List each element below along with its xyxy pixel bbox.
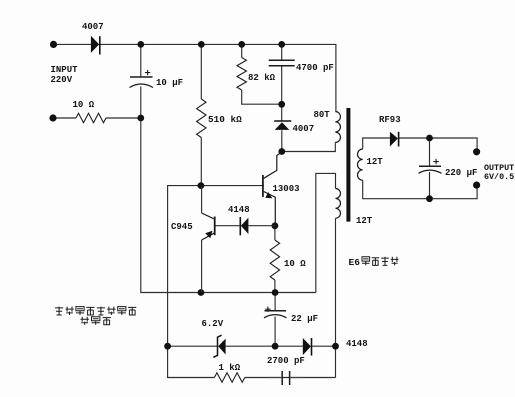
svg-text:10 Ω: 10 Ω [73, 100, 95, 110]
inductor primary 80T [335, 112, 340, 143]
wire bottom row [168, 346, 336, 377]
diode D3 4148 base [215, 217, 275, 235]
svg-text:4148: 4148 [228, 205, 250, 215]
node junction 4700pF top [278, 41, 285, 48]
svg-text:4700 pF: 4700 pF [296, 63, 334, 73]
inductor secondary 12T [358, 149, 363, 180]
transformer core [346, 108, 350, 222]
diode D5 RF93 output rectifier [390, 132, 399, 147]
node junction zener row left [164, 343, 171, 350]
node junction 10ohm 22uF [272, 289, 279, 296]
wire top rail [54, 44, 336, 111]
text E6 core caption CJK [362, 257, 398, 266]
text caption phone charger power line1 [55, 307, 136, 315]
wire secondary loop [363, 138, 477, 199]
text E6 high frequency core [349, 257, 361, 268]
svg-text:RF93: RF93 [379, 115, 401, 125]
svg-text:13003: 13003 [273, 184, 300, 194]
svg-text:82 kΩ: 82 kΩ [248, 73, 276, 83]
diode ZD 6.2V zener [213, 335, 225, 357]
wire 22uF leads [274, 293, 276, 347]
node junction 82k 4700pF 4007 [278, 101, 285, 108]
wire 220uF leads [429, 138, 431, 199]
diode D4 4148 feedback [303, 338, 312, 356]
node junction 510k top [198, 41, 205, 48]
wire 80T bottom to collector node [282, 142, 336, 151]
node junction 4148 feedback [332, 343, 339, 350]
wire feedback bottom to 4148 node [335, 218, 337, 377]
capacitor C5 220uF electrolytic [419, 159, 442, 173]
node junction collector [278, 148, 285, 155]
svg-text:2700 pF: 2700 pF [267, 356, 305, 366]
resistor R2 510k [197, 99, 206, 138]
diode D1 4007 input rectifier [91, 36, 100, 55]
node junction 4148 emitter [272, 222, 279, 229]
node output terminal minus [473, 182, 480, 189]
node junction 22uF bottom [272, 343, 279, 350]
capacitor C2 4700pF [269, 60, 295, 66]
resistor R3 82k [237, 58, 246, 91]
svg-text:22 µF: 22 µF [291, 314, 318, 324]
svg-text:E6: E6 [349, 257, 361, 268]
node junction 10uF top [137, 41, 144, 48]
svg-text:80T: 80T [314, 110, 331, 120]
capacitor C1 10uF electrolytic [130, 70, 154, 88]
svg-text:510 kΩ: 510 kΩ [208, 114, 242, 125]
transistor Q2 13003 [263, 153, 281, 226]
node junction 82k top [238, 41, 245, 48]
svg-text:220 µF: 220 µF [445, 168, 477, 178]
text caption converter line2 [81, 317, 111, 325]
wire 4007 shunt diode leads [281, 104, 283, 151]
svg-text:1 kΩ: 1 kΩ [219, 363, 241, 373]
wire base rail to 13003 [168, 186, 264, 347]
transistor Q1 C945 [202, 186, 215, 293]
svg-text:4007: 4007 [293, 124, 315, 134]
svg-text:10 µF: 10 µF [156, 78, 183, 88]
resistor R4 10 ohm emitter [270, 240, 279, 280]
wire input lower lead [53, 117, 141, 119]
wire 510k branch [200, 44, 202, 185]
svg-text:12T: 12T [356, 216, 373, 226]
wire 10uF branch down to emitter rail [141, 44, 316, 292]
svg-text:6V/0.5: 6V/0.5 [484, 172, 514, 182]
svg-text:INPUT: INPUT [51, 65, 79, 75]
inductor feedback 12T [336, 189, 341, 219]
wire 82k branch [242, 44, 282, 104]
svg-text:4148: 4148 [346, 339, 368, 349]
capacitor C3 22uF electrolytic [264, 307, 287, 318]
diode D2 4007 clamp [274, 121, 291, 130]
resistor R1 10 ohm input [76, 113, 106, 122]
resistor R5 1k [214, 373, 244, 382]
svg-text:4007: 4007 [82, 22, 104, 32]
svg-text:220V: 220V [51, 75, 73, 85]
wire 4700pF branch [281, 44, 283, 104]
node junction 220uF bottom [426, 195, 433, 202]
svg-text:6.2V: 6.2V [202, 319, 224, 329]
wire zener row [168, 345, 336, 347]
node input terminal top [50, 41, 57, 48]
node junction 10 ohm / 10uF [137, 115, 144, 122]
node output terminal plus [473, 148, 480, 155]
svg-text:C945: C945 [171, 222, 193, 232]
svg-text:12T: 12T [367, 157, 384, 167]
wire 10 ohm emitter resistor leads [274, 226, 276, 293]
wire feedback loop left side [316, 173, 336, 292]
capacitor C4 2700pF [268, 371, 304, 385]
svg-text:10 Ω: 10 Ω [284, 259, 306, 269]
node junction base rail [198, 182, 205, 189]
node junction 220uF top [426, 135, 433, 142]
node input terminal bottom [49, 114, 56, 121]
node junction C945 emitter rail [198, 289, 205, 296]
